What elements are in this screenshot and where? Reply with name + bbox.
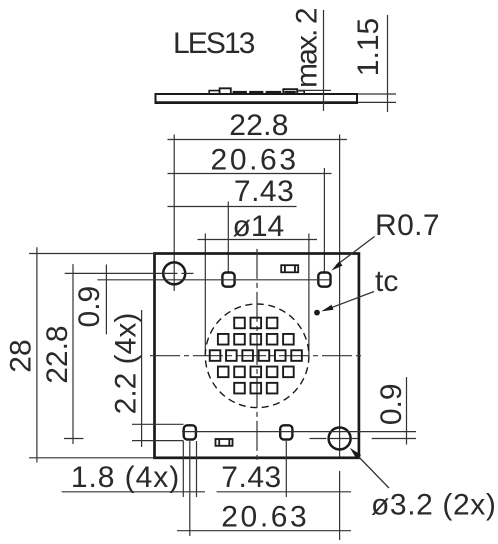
extension line package top edge to left: [29, 253, 155, 255]
extension line bottom-left pad bottom edge: [132, 440, 184, 442]
svg-text:28: 28: [5, 339, 38, 372]
extension line top-right pad center vertical: [323, 168, 325, 272]
extension line bottom-right hole vertical (lower part to bottom dims): [339, 471, 341, 540]
svg-text:LES13: LES13: [173, 27, 255, 60]
dim line ø14: [198, 239, 318, 241]
dim line 22.8 top: [168, 139, 348, 141]
die row5: [234, 383, 245, 394]
die strip dash 2: [249, 91, 263, 94]
left connector block on board: [220, 88, 231, 94]
extension line right hole center vertical (upper): [339, 135, 341, 458]
center mark horizontal of bottom-right hole: [310, 438, 327, 440]
left plinth on board: [209, 91, 219, 94]
dim line 0.9 left (vertical): [105, 265, 107, 335]
dimension max. 2 vertical line: [323, 10, 325, 111]
svg-text:ø14: ø14: [233, 210, 285, 243]
package square outline: [155, 254, 359, 458]
extension line bottom-left pad top edge: [132, 423, 184, 425]
die row2: [218, 334, 229, 345]
extension line bottom-right pad center vertical: [285, 441, 287, 497]
svg-text:7.43: 7.43: [221, 461, 281, 494]
extension tick for max. 2 at component top: [297, 89, 331, 91]
dim line 28 (vertical): [36, 247, 38, 462]
extension line bottom pad row (horizontal): [182, 431, 416, 433]
center line vertical (dash-dot): [256, 249, 258, 463]
leader line ø3.2: [355, 453, 389, 488]
center line horizontal (dash-dot): [150, 355, 362, 357]
arrowhead tc: [321, 305, 333, 312]
die row3 (middle, 6 dies): [210, 350, 221, 361]
extension line left hole center vertical: [173, 135, 175, 292]
svg-text:ø3.2 (2x): ø3.2 (2x): [371, 489, 496, 522]
extension line bottom-left pad right edge vertical: [196, 441, 198, 497]
extension tick board bottom for 1.15: [358, 101, 396, 103]
extension line bottom-left pad center vertical: [189, 441, 191, 536]
die strip dash inside right block: [285, 91, 296, 94]
LES dashed circle ø14: [205, 304, 309, 408]
LED die grid (22 dies): [210, 318, 302, 394]
svg-text:0.9: 0.9: [73, 286, 106, 328]
mounting hole top-left: [163, 262, 185, 284]
dimension 1.15 vertical line: [387, 15, 389, 112]
solder pad bottom-left: [184, 425, 196, 439]
svg-text:tc: tc: [375, 265, 398, 298]
dim line 20.63 top: [168, 173, 332, 175]
svg-text:7.43: 7.43: [234, 175, 294, 208]
dim line 7.43 top: [168, 206, 297, 208]
dim line 2.2 (4x) left (vertical): [141, 310, 143, 447]
right connector block on board: [283, 89, 297, 94]
board bottom edge (thicker): [155, 101, 359, 104]
extension line package bottom edge to left: [29, 457, 155, 459]
svg-text:1.15: 1.15: [352, 18, 385, 76]
extension line ø14 right tangent: [308, 234, 310, 357]
right plinth on board: [297, 91, 304, 94]
arrowhead R0.7: [331, 261, 342, 270]
leader line R0.7: [336, 237, 375, 266]
extension line top pad row (horizontal): [97, 279, 330, 281]
dim line 0.9 right (vertical): [406, 377, 408, 445]
svg-text:2.2 (4x): 2.2 (4x): [109, 313, 142, 415]
solder pad top-right: [318, 273, 330, 287]
svg-text:max. 2: max. 2: [290, 8, 323, 88]
dim line 22.8 left (vertical): [72, 264, 74, 444]
extension line top-left pad center vertical: [227, 202, 229, 272]
leader line tc: [330, 292, 374, 309]
arrowhead ø3.2: [350, 448, 361, 459]
svg-text:R0.7: R0.7: [375, 209, 440, 242]
die row1: [234, 318, 245, 329]
svg-text:22.8: 22.8: [41, 325, 74, 383]
svg-text:0.9: 0.9: [375, 383, 408, 425]
extension tick board top for 1.15: [358, 93, 396, 95]
mounting hole bottom-right: [329, 428, 351, 450]
polarity mark top (striped rectangle): [281, 265, 298, 272]
board side view outline: [156, 94, 358, 103]
polarity mark bottom (striped rectangle): [216, 439, 233, 446]
solder pad bottom-right: [280, 425, 292, 439]
die strip dash 1: [233, 91, 247, 94]
svg-text:22.8: 22.8: [229, 109, 289, 142]
extension line hole row right (for 0.9 dim): [372, 438, 416, 440]
svg-text:20.63: 20.63: [211, 144, 299, 177]
extension line ø14 left tangent: [204, 234, 206, 357]
extension tick hole row bottom at 22.8 dim: [64, 438, 84, 440]
extension line bottom-left pad left edge vertical: [182, 441, 184, 497]
die row4: [218, 367, 229, 378]
dim line 1.8 (4x) bottom: [62, 491, 205, 493]
center mark horizontal of top-left hole (extends to left dims): [65, 272, 178, 274]
svg-text:1.8 (4x): 1.8 (4x): [71, 461, 180, 494]
tc measurement point (dot): [314, 310, 320, 316]
svg-text:20.63: 20.63: [221, 501, 309, 534]
die strip dash 3: [266, 91, 282, 94]
dim line 20.63 bottom: [177, 530, 351, 532]
dim line 7.43 bottom: [217, 491, 351, 493]
solder pad top-left: [222, 273, 234, 287]
